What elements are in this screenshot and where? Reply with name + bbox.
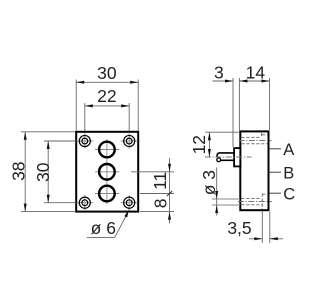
dim 3,5 bottom: [227, 212, 283, 244]
mounting hole top-left: [76, 134, 93, 149]
mounting hole top-right: [121, 134, 138, 149]
svg-text:30: 30: [33, 162, 53, 182]
hidden counterbore A vertical: [261, 133, 263, 138]
body: [240, 131, 268, 210]
plate body: [76, 132, 138, 212]
dim 30 left: [33, 141, 75, 203]
svg-text:38: 38: [9, 161, 29, 180]
dim 38 left: [9, 132, 75, 212]
dim 30 top: [76, 63, 138, 131]
hidden cross hole C bottom: lower edge: [241, 204, 262, 206]
svg-text:C: C: [283, 185, 295, 203]
svg-text:ø 6: ø 6: [91, 218, 116, 238]
collar of pin: [234, 148, 240, 166]
svg-text:B: B: [283, 165, 294, 183]
pin end ball: [217, 158, 221, 162]
centerline hole C: [238, 201, 272, 203]
label C leader: [270, 192, 282, 194]
svg-text:A: A: [283, 141, 294, 159]
dim 22 top: [85, 86, 129, 131]
svg-text:3: 3: [214, 62, 224, 82]
dim 11 / 8 right chain: [131, 158, 174, 224]
port C centerline: [95, 193, 120, 195]
label B leader: [270, 171, 282, 173]
hidden cross hole A top: upper edge: [241, 136, 261, 138]
hidden counterbore C vertical: [261, 194, 263, 210]
svg-text:3,5: 3,5: [227, 218, 251, 238]
svg-text:30: 30: [97, 63, 117, 83]
hidden counterbore C horizontal: [262, 193, 266, 195]
port A centerline: [95, 149, 120, 151]
dim 3 top (collar): [213, 62, 240, 147]
svg-text:14: 14: [246, 62, 266, 82]
dim 12 left (pin position): [189, 132, 239, 157]
dim diameter 3 (cross hole): [199, 168, 240, 216]
pin centerline: [205, 156, 252, 158]
mounting hole bottom-left: [76, 195, 93, 210]
hidden counterbore A horizontal: [262, 134, 267, 136]
svg-text:8: 8: [151, 199, 171, 209]
svg-text:22: 22: [97, 86, 116, 106]
svg-text:ø 3: ø 3: [199, 170, 219, 195]
port B centerline: [95, 171, 120, 173]
port A circle: [99, 142, 115, 158]
centerline hole A: [239, 140, 272, 142]
hidden cross hole A top: lower edge: [241, 143, 267, 145]
port C circle: [99, 186, 115, 202]
centerline vertical through ports: [106, 139, 108, 204]
dim diameter 6 leader: [87, 209, 129, 238]
svg-text:11: 11: [150, 172, 170, 190]
hidden cross hole C bottom: upper edge: [241, 198, 261, 200]
label A leader: [270, 148, 282, 150]
pin top line: [217, 153, 234, 157]
dim 14 top (body width): [239, 62, 269, 130]
mounting hole bottom-right: [121, 195, 138, 210]
port B circle: [99, 164, 115, 180]
pin bottom line: [221, 159, 235, 161]
svg-text:12: 12: [189, 135, 209, 154]
